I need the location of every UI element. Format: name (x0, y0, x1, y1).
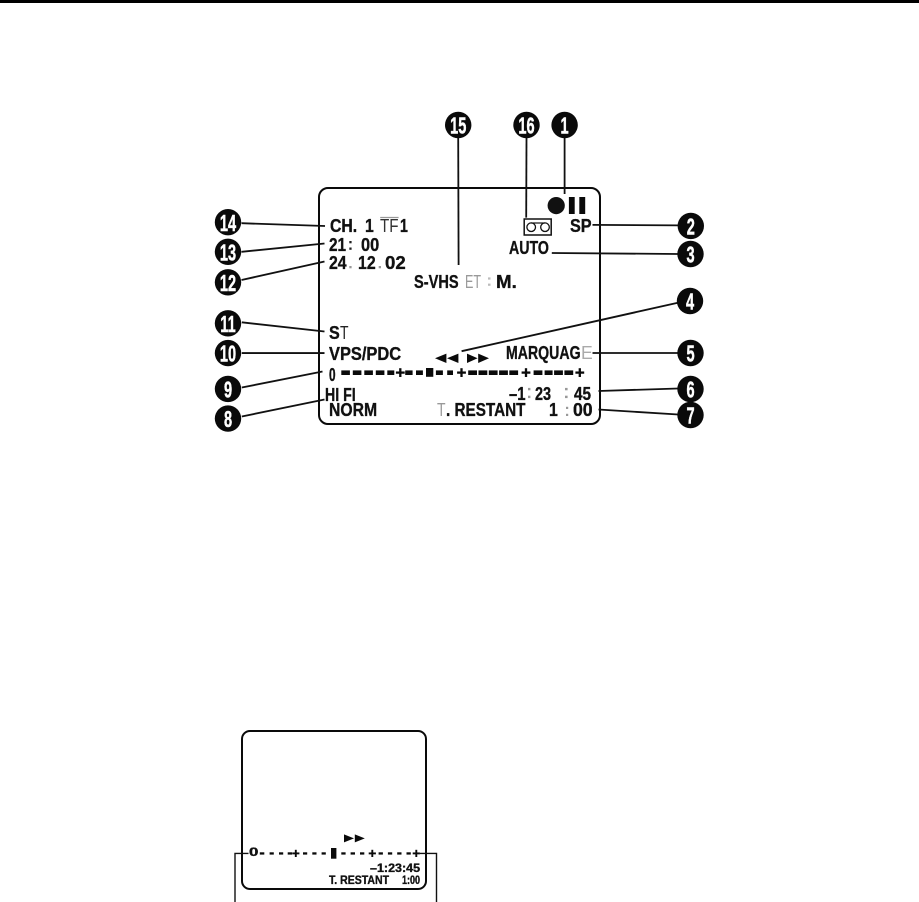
svg-text:11: 11 (220, 311, 235, 337)
svg-text:16: 16 (518, 113, 534, 139)
svg-text:10: 10 (220, 341, 236, 367)
svg-text:1: 1 (561, 113, 569, 139)
svg-text:8: 8 (224, 407, 232, 433)
svg-text:12: 12 (220, 270, 236, 296)
svg-text:13: 13 (220, 240, 236, 266)
svg-text:4: 4 (686, 289, 694, 315)
svg-text:15: 15 (450, 113, 466, 139)
svg-text:3: 3 (686, 242, 694, 268)
svg-text:6: 6 (686, 377, 694, 403)
svg-text:14: 14 (220, 210, 236, 236)
svg-text:9: 9 (224, 377, 232, 403)
svg-text:2: 2 (687, 214, 695, 240)
svg-text:5: 5 (686, 341, 694, 367)
svg-text:7: 7 (686, 403, 694, 429)
